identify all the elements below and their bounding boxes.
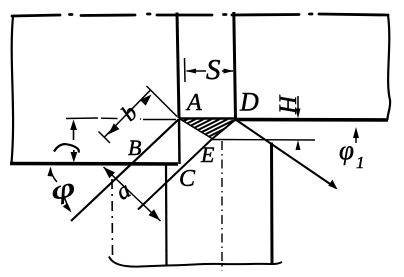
- right block bottom machined surface: [234, 118, 388, 122]
- svg-text:H: H: [273, 94, 300, 115]
- svg-text:D: D: [239, 88, 259, 117]
- reference line for H: [212, 139, 315, 142]
- dimension b line with arrows: [104, 90, 151, 138]
- main cutting edge A-B extended: [71, 119, 179, 221]
- dimension S extension tick: [184, 58, 187, 82]
- svg-text:1: 1: [356, 153, 365, 172]
- svg-text:φ: φ: [339, 135, 354, 165]
- angle phi arc arrow upper: [51, 169, 58, 183]
- chamfer edge from D at angle phi1: [236, 120, 337, 189]
- svg-text:B: B: [128, 135, 141, 160]
- dimension S line with arrows: [187, 70, 234, 72]
- label t (handwritten crossbar over dimension line): [54, 144, 79, 152]
- lower block bottom break edge: [109, 257, 282, 267]
- arrowhead at end of chamfer edge: [328, 180, 337, 190]
- vertical edge below point A: [178, 119, 181, 164]
- kerf bottom line A-D: [179, 117, 236, 120]
- phantom previous edge position (dashed): [111, 179, 114, 257]
- svg-text:a: a: [112, 177, 135, 206]
- extension line from A level (depth reference): [66, 118, 176, 120]
- svg-text:S: S: [206, 54, 221, 86]
- left block bottom machined surface: [10, 162, 178, 166]
- edge A-E of chip section: [180, 119, 212, 139]
- svg-text:C: C: [179, 166, 196, 192]
- dimension H arrows: [297, 96, 299, 110]
- angle phi arc arrow lower: [64, 196, 70, 210]
- svg-text:E: E: [200, 142, 215, 167]
- svg-text:A: A: [185, 90, 202, 116]
- centre line (dash-dot): [221, 141, 223, 271]
- extension bar at B for width b: [99, 132, 111, 144]
- svg-text:φ: φ: [48, 172, 78, 206]
- workpiece top surface edge (broken line): [12, 14, 388, 16]
- lower block left edge: [165, 164, 168, 265]
- dimension t line with arrows: [73, 126, 75, 140]
- extension line from A for width b: [147, 86, 178, 117]
- hatched chip cross-section triangle ADE: [184, 119, 233, 137]
- lower block right edge: [270, 143, 274, 265]
- angle phi1 arrow to surface: [355, 132, 357, 143]
- right slot wall: [234, 12, 236, 119]
- left slot wall: [177, 13, 179, 119]
- left break edge of workpiece: [12, 16, 14, 163]
- right break edge of workpiece: [387, 15, 390, 120]
- dimension a line with arrows: [104, 167, 161, 221]
- auxiliary edge D-E extended (previous cut position): [138, 120, 236, 210]
